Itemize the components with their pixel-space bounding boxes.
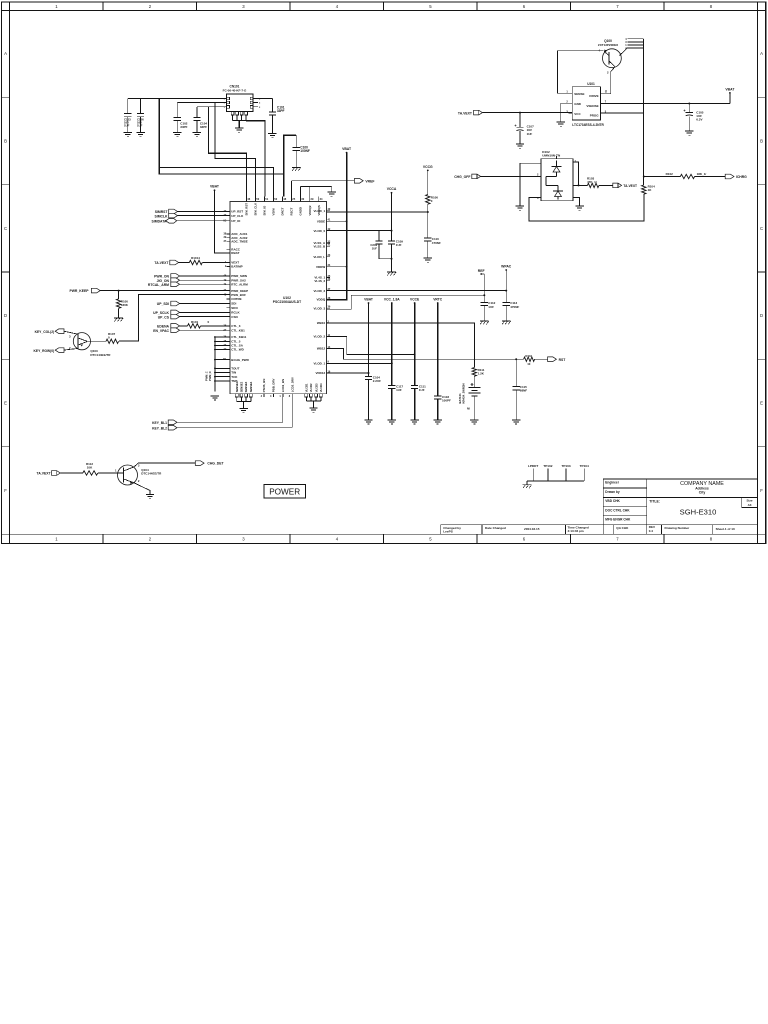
ground: [387, 272, 396, 275]
svg-text:PWR_KEEP: PWR_KEEP: [69, 289, 89, 293]
svg-text:VDD12: VDD12: [316, 371, 326, 375]
POWER title box: [264, 485, 306, 498]
node REF: [478, 269, 485, 303]
ground: [235, 128, 243, 132]
svg-text:VCCA: VCCA: [387, 187, 397, 191]
svg-text:6.3V: 6.3V: [696, 118, 702, 122]
wire: [327, 266, 348, 268]
wire U101 GND: [561, 103, 573, 121]
node VBAT label: [364, 298, 373, 377]
svg-text:CTL_KB11: CTL_KB11: [231, 335, 246, 339]
svg-text:R110: R110: [525, 354, 532, 358]
svg-text:VREF: VREF: [365, 179, 374, 183]
connector PWR_KEEP: [69, 288, 230, 293]
svg-text:1UF: 1UF: [396, 388, 402, 392]
IC U102 right pin labels: [313, 208, 331, 375]
svg-text:LCD1_BN: LCD1_BN: [281, 379, 285, 392]
connector UP_CS: [158, 314, 230, 319]
svg-text:DTC144EE/TR: DTC144EE/TR: [90, 353, 111, 357]
svg-text:LPDDT: LPDDT: [528, 464, 538, 468]
wire VLOD_1 rail: [327, 362, 393, 364]
svg-text:470NF: 470NF: [510, 305, 519, 309]
svg-text:1UF: 1UF: [124, 124, 130, 128]
wire CTL bus: [205, 336, 231, 391]
svg-text:0.4: 0.4: [649, 529, 654, 533]
svg-text:1UF: 1UF: [396, 243, 402, 247]
wire: [215, 103, 256, 197]
wire VDDL rail: [327, 337, 416, 356]
wire D102 bottom-right: [573, 198, 580, 206]
svg-text:FC-06-40-KF-7-G: FC-06-40-KF-7-G: [223, 88, 247, 92]
svg-text:1UF: 1UF: [137, 124, 143, 128]
svg-text:1UF: 1UF: [488, 305, 494, 309]
ground: [292, 168, 301, 171]
frame row letters left: [4, 51, 7, 493]
svg-text:City: City: [699, 490, 706, 494]
ground: [575, 206, 583, 210]
svg-text:UMN10N-TN: UMN10N-TN: [542, 154, 561, 158]
capacitor C117: [388, 384, 403, 419]
wire D102 top-right: [557, 156, 580, 186]
ground: [516, 206, 524, 210]
svg-text:SENSE3: SENSE3: [244, 381, 248, 392]
svg-text:SIM_IO: SIM_IO: [263, 205, 267, 216]
svg-text:VLSS_B: VLSS_B: [314, 245, 327, 249]
ground: [557, 122, 565, 126]
node WPAC: [501, 264, 512, 302]
svg-text:REF: REF: [478, 269, 485, 273]
svg-text:Sheet.1 of 10: Sheet.1 of 10: [716, 527, 735, 531]
svg-text:ZXT13P20DE6: ZXT13P20DE6: [598, 43, 619, 47]
wire VDDQ rail: [327, 294, 486, 309]
svg-text:UP_CS: UP_CS: [158, 315, 170, 319]
svg-text:R1014: R1014: [191, 256, 200, 260]
connector SIMCLK: [155, 213, 231, 218]
svg-text:UP_CLK: UP_CLK: [231, 214, 244, 218]
ground: [685, 131, 693, 135]
svg-text:BCHG_PWR: BCHG_PWR: [231, 358, 249, 362]
svg-text:CHG_OFF: CHG_OFF: [454, 175, 470, 179]
frame row letters right: [760, 51, 763, 493]
svg-text:2004.02.15: 2004.02.15: [524, 527, 540, 531]
wire VDD12 rail: [327, 372, 370, 374]
svg-text:TITLE:: TITLE:: [649, 500, 660, 504]
connector UP_SDI: [157, 301, 230, 306]
wire D102 bottom loop: [529, 194, 644, 221]
svg-text:RTC_ALRM: RTC_ALRM: [231, 283, 248, 287]
svg-text:SIM_CLK: SIM_CLK: [254, 202, 258, 216]
svg-text:VDDE: VDDE: [317, 220, 325, 224]
svg-text:TA.VEXT: TA.VEXT: [37, 472, 52, 476]
connector CHG_DET: [195, 461, 224, 466]
IC U102 left pin labels: [223, 210, 250, 384]
svg-text:ICHRG: ICHRG: [736, 175, 747, 179]
ground: [328, 192, 336, 196]
svg-text:DTC144EE/TR: DTC144EE/TR: [141, 472, 162, 476]
svg-text:ADC_TMSE: ADC_TMSE: [231, 239, 248, 243]
wire Q100 emitter: [558, 51, 604, 94]
frame column numbers bottom: [55, 537, 713, 542]
svg-text:TA.VEXT: TA.VEXT: [623, 184, 637, 188]
capacitor C118: [434, 395, 451, 419]
connector PWR_ON: [154, 274, 230, 279]
svg-text:TA.VEXT: TA.VEXT: [458, 111, 473, 115]
svg-text:470NF: 470NF: [432, 241, 441, 245]
node VCCA: [387, 187, 397, 241]
capacitor C104b: [365, 375, 381, 419]
capacitor C115: [513, 358, 528, 419]
node VCCE label: [410, 298, 420, 386]
svg-text:1UF: 1UF: [527, 132, 533, 136]
connector ICHRG: [725, 174, 747, 179]
svg-text:RBAT: RBAT: [231, 251, 239, 255]
svg-text:Drawn by: Drawn by: [605, 490, 620, 494]
wire PROG: [600, 112, 643, 114]
svg-text:SENSE2: SENSE2: [240, 381, 244, 392]
svg-text:GNDD: GNDD: [299, 207, 303, 216]
svg-text:E: E: [4, 401, 7, 406]
ground: [512, 420, 520, 424]
capacitor C103: [124, 99, 131, 133]
svg-text:TP102: TP102: [543, 464, 552, 468]
svg-text:LTC1734ESS-4.2NTR: LTC1734ESS-4.2NTR: [572, 123, 604, 127]
ground: [424, 258, 432, 262]
wire gnd link: [301, 187, 332, 197]
svg-text:UP_IO: UP_IO: [231, 219, 241, 223]
svg-text:DRIVE: DRIVE: [589, 94, 598, 98]
svg-text:100NF: 100NF: [300, 149, 310, 153]
wire: [159, 168, 284, 175]
svg-text:SENSE: SENSE: [574, 92, 584, 96]
capacitor C101: [269, 99, 285, 134]
ground: [523, 485, 532, 488]
wire Q100 base stubs: [625, 38, 643, 185]
connector TA.VEXT charger input: [458, 110, 572, 115]
title block company: [680, 481, 724, 494]
svg-text:VLOD_2: VLOD_2: [314, 335, 326, 339]
op-amp U101 LTC1734: [566, 82, 607, 127]
ground: [388, 420, 396, 424]
svg-text:TP103: TP103: [561, 464, 570, 468]
ground: [502, 321, 511, 324]
resistor R107: [106, 332, 119, 344]
wire: [258, 98, 272, 100]
svg-text:VLOD_3: VLOD_3: [314, 306, 326, 310]
wire BAT101 feed: [327, 323, 475, 368]
IC U102 bottom pins group 2: [305, 383, 324, 408]
node VBAT rail: [327, 147, 353, 300]
svg-text:VRTC: VRTC: [433, 298, 443, 302]
ground: [309, 408, 317, 412]
diode D102: [537, 150, 576, 201]
svg-text:VL4S_2: VL4S_2: [314, 279, 325, 283]
svg-text:KEY_COL(2): KEY_COL(2): [35, 330, 55, 334]
wire: [209, 107, 247, 197]
svg-text:RTCAL_ARM: RTCAL_ARM: [148, 283, 169, 287]
svg-text:R102: R102: [666, 172, 674, 176]
svg-text:CTL_WD: CTL_WD: [231, 348, 244, 352]
svg-text:RECT: RECT: [290, 207, 294, 215]
svg-text:A: A: [4, 51, 7, 56]
svg-text:VCCG: VCCG: [423, 165, 433, 169]
svg-text:VCC: VCC: [574, 112, 581, 116]
svg-text:U101: U101: [587, 82, 595, 86]
svg-text:B: B: [4, 139, 7, 144]
ground: [173, 133, 181, 137]
svg-text:KEY_ROW(0): KEY_ROW(0): [33, 349, 54, 353]
svg-text:SDO: SDO: [231, 306, 238, 310]
wire: [233, 121, 247, 128]
svg-text:VLOD_2: VLOD_2: [314, 289, 326, 293]
capacitor C110: [424, 237, 441, 257]
svg-text:PBB_DRV: PBB_DRV: [272, 378, 276, 392]
IC U102 bottom pins middle: [261, 377, 295, 398]
resistor R100: [116, 291, 128, 318]
ground: [114, 318, 123, 321]
svg-text:VLOD_0: VLOD_0: [314, 229, 326, 233]
capacitor C113: [503, 301, 520, 320]
connector TA.VEXT out: [613, 183, 637, 188]
connector VREF: [292, 179, 375, 197]
svg-text:VLOD_1: VLOD_1: [314, 209, 326, 213]
capacitor C106: [137, 99, 144, 133]
frame column numbers top: [55, 4, 713, 9]
connector CHG_OFF: [454, 174, 541, 179]
svg-text:PSC21064AUS-DT: PSC21064AUS-DT: [273, 300, 301, 304]
resistor R101: [188, 320, 231, 328]
svg-text:CHG_DET: CHG_DET: [207, 462, 224, 466]
svg-text:CNTRE: CNTRE: [231, 297, 241, 301]
svg-text:CSN: CSN: [231, 315, 237, 319]
ground: [268, 134, 276, 138]
svg-text:F: F: [760, 488, 763, 493]
test point row: [527, 464, 589, 485]
svg-text:D: D: [4, 313, 7, 318]
svg-text:SIM_RST: SIM_RST: [245, 203, 249, 216]
connector RST: [548, 357, 567, 362]
svg-text:VDDQ: VDDQ: [317, 298, 326, 302]
svg-text:KEY_BL2: KEY_BL2: [152, 427, 167, 431]
IC U102 bottom pins group 1: [235, 381, 253, 408]
svg-text:4:13:46 pm: 4:13:46 pm: [568, 529, 584, 533]
resistor R104: [642, 185, 656, 195]
svg-text:TP104: TP104: [580, 464, 589, 468]
connector KEY_BL2: [152, 425, 292, 430]
wire VSENSE to VBAT: [600, 87, 735, 104]
transistor Q100: [598, 39, 628, 94]
connector EDENA: [157, 324, 187, 329]
border frame: [2, 2, 766, 544]
svg-text:F: F: [4, 488, 7, 493]
transistor Q103: [69, 333, 111, 357]
svg-text:VDDW: VDDW: [316, 265, 325, 269]
svg-text:1UF: 1UF: [419, 388, 425, 392]
svg-text:VBAT: VBAT: [342, 147, 352, 151]
connector CN101: [221, 85, 261, 121]
title block bottom row: [440, 525, 735, 534]
wire ICHRG: [643, 176, 681, 178]
title block title: [649, 497, 757, 516]
ground: [470, 420, 478, 424]
wire: [177, 102, 224, 104]
svg-text:SENSE1: SENSE1: [235, 381, 239, 392]
resistor R1014: [189, 256, 230, 265]
resistor R112: [83, 462, 124, 475]
battery BAT101: [458, 383, 480, 419]
svg-text:TA.VEXT: TA.VEXT: [154, 261, 169, 265]
svg-text:LeePS: LeePS: [443, 529, 452, 533]
ground: [480, 321, 489, 324]
svg-text:VBAT: VBAT: [364, 298, 373, 302]
svg-text:33PF: 33PF: [277, 109, 285, 113]
svg-text:VLOD_1: VLOD_1: [314, 362, 326, 366]
svg-text:10: 10: [527, 362, 531, 366]
svg-text:SIMDATA: SIMDATA: [152, 220, 167, 224]
wire: [197, 106, 224, 108]
resistor R110: [524, 354, 548, 366]
wire: [159, 99, 273, 197]
svg-text:68NF: 68NF: [520, 389, 528, 393]
svg-text:A3: A3: [748, 503, 752, 507]
capacitor C100: [293, 135, 310, 167]
capacitor C105: [684, 104, 704, 131]
svg-text:VBAT: VBAT: [210, 184, 220, 188]
svg-text:C: C: [760, 226, 763, 231]
svg-text:33PF: 33PF: [180, 125, 187, 129]
svg-text:A: A: [760, 51, 763, 56]
svg-text:1.2K: 1.2K: [478, 371, 485, 375]
ground: [146, 495, 154, 499]
svg-text:VLCD1: VLCD1: [305, 383, 309, 392]
wire PSW_BUF: [119, 295, 230, 341]
ground: [364, 420, 372, 424]
node junction: [118, 290, 120, 292]
svg-text:VCCE: VCCE: [410, 298, 420, 302]
svg-text:100PF: 100PF: [442, 399, 451, 403]
svg-text:C: C: [4, 226, 7, 231]
IC U102 PSC21064AUS-DT: [230, 202, 327, 394]
svg-text:GND: GND: [574, 102, 582, 106]
node VCCG: [423, 165, 433, 195]
svg-text:VSIM: VSIM: [272, 208, 276, 216]
wire D102 top-left: [520, 163, 541, 205]
ground: [136, 133, 144, 137]
svg-text:RST: RST: [559, 358, 567, 362]
resistor R111: [472, 368, 485, 388]
connector KEY_COL(2): [35, 329, 78, 334]
svg-text:POWER: POWER: [269, 488, 300, 497]
node VRTC label: [433, 298, 443, 396]
ground: [239, 409, 247, 413]
ground: [516, 144, 524, 148]
ground: [410, 420, 418, 424]
transistor Q104: [115, 463, 195, 494]
svg-text:KEY_BL1: KEY_BL1: [152, 421, 167, 425]
svg-text:VLCD2: VLCD2: [309, 383, 313, 392]
svg-text:SENSE4: SENSE4: [249, 381, 253, 392]
svg-text:PSNS_BN: PSNS_BN: [262, 379, 266, 393]
svg-text:VCC_1.8A: VCC_1.8A: [384, 298, 400, 302]
svg-text:VSENSE: VSENSE: [586, 104, 598, 108]
ground: [211, 396, 219, 400]
svg-text:NI: NI: [467, 407, 470, 411]
connector SIMDATA: [152, 219, 230, 224]
IC U102 top pins: [245, 197, 323, 216]
wire: [327, 211, 429, 213]
connector RTCAL_ARM: [148, 282, 230, 287]
svg-text:Engineer: Engineer: [605, 481, 619, 485]
svg-text:PWM_D: PWM_D: [208, 371, 212, 381]
svg-text:33PF: 33PF: [200, 125, 207, 129]
svg-text:WB10: WB10: [317, 321, 326, 325]
capacitor C111: [411, 384, 426, 419]
connector KEY_ROW(0): [33, 348, 78, 353]
svg-text:1UF: 1UF: [372, 246, 378, 250]
ground: [434, 420, 442, 424]
svg-text:UP_SDI: UP_SDI: [157, 302, 169, 306]
svg-text:18K_1/: 18K_1/: [697, 172, 707, 176]
connector KEY_BL1: [152, 420, 283, 425]
svg-text:BATIMP: BATIMP: [231, 265, 242, 269]
wire VLOD_2 rail: [327, 290, 507, 292]
capacitor C112: [481, 301, 496, 320]
connector EN_VPAC: [153, 328, 230, 333]
svg-text:D: D: [760, 313, 763, 318]
connector TA.VEXT bottom: [37, 471, 83, 476]
svg-text:VLOD_L: VLOD_L: [313, 255, 325, 259]
svg-text:DOC CTRL CHK: DOC CTRL CHK: [605, 508, 630, 512]
svg-text:CTL_KB1: CTL_KB1: [231, 328, 245, 332]
capacitor C104: [193, 107, 207, 132]
ground: [193, 133, 201, 137]
wire: [327, 220, 348, 222]
svg-text:10K: 10K: [87, 466, 93, 470]
wire: [291, 397, 293, 428]
svg-text:WB12: WB12: [317, 347, 326, 351]
wire: [246, 121, 265, 197]
wire: [128, 98, 224, 100]
svg-text:330K: 330K: [121, 303, 129, 307]
wire: [284, 135, 296, 196]
svg-text:SIMCLK: SIMCLK: [155, 214, 169, 218]
connector UP_SCLK: [153, 310, 230, 315]
node VBAT: [210, 184, 230, 253]
connector JIG_ON: [157, 278, 230, 283]
svg-text:PROG: PROG: [590, 114, 600, 118]
connector TA.VEXT: [154, 260, 189, 265]
svg-text:DRCT: DRCT: [281, 207, 285, 215]
capacitor C109: [388, 240, 403, 272]
svg-text:VLCD3: VLCD3: [314, 383, 318, 392]
capacitor C102: [174, 103, 188, 132]
svg-text:VBAT: VBAT: [725, 87, 735, 91]
svg-text:VBD CHK: VBD CHK: [605, 499, 620, 503]
resistor R106: [426, 195, 439, 238]
svg-text:Date Changed: Date Changed: [485, 526, 506, 530]
capacitor C249: [370, 231, 391, 259]
svg-text:LCD2_DRV: LCD2_DRV: [290, 377, 294, 392]
connector SIMRST: [155, 209, 230, 214]
wire RST line: [327, 348, 524, 359]
title block: [603, 479, 757, 534]
ground: [124, 133, 132, 137]
resistor R103: [573, 177, 613, 188]
svg-text:SGH-E310: SGH-E310: [680, 507, 717, 516]
wire: [327, 230, 393, 232]
resistor R102: [666, 172, 726, 179]
svg-text:2.2UF: 2.2UF: [373, 379, 381, 383]
svg-text:KR424_3WR2H: KR424_3WR2H: [461, 383, 465, 403]
